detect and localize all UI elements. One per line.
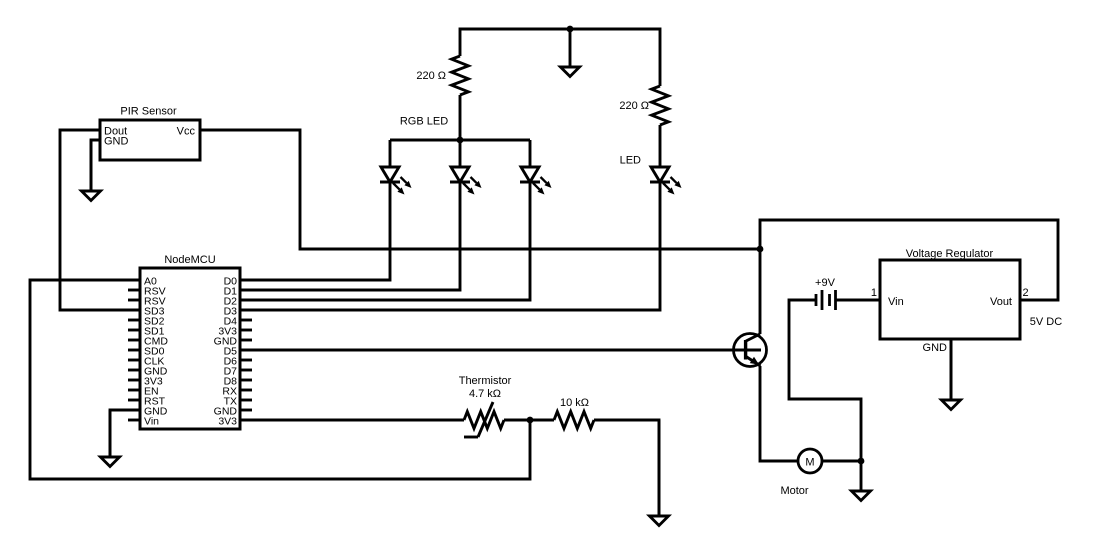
label Thermistor [459, 375, 512, 387]
wire A0 to divider junction [30, 280, 530, 479]
wire NodeMCU GND to ground [110, 410, 140, 457]
wire R2 to LED4 [659, 125, 662, 167]
svg-text:Motor: Motor [780, 485, 808, 497]
svg-text:M: M [805, 456, 814, 468]
wire top rail [460, 29, 660, 86]
wire regulator GND [950, 339, 953, 400]
svg-text:Voltage Regulator: Voltage Regulator [906, 248, 994, 260]
node top ground junction [567, 26, 574, 33]
wire collector rail [760, 220, 1058, 334]
wire Dout to SD3 [60, 130, 140, 310]
svg-text:Vin: Vin [888, 296, 904, 308]
PIR sensor module [100, 105, 200, 160]
svg-text:1: 1 [871, 287, 877, 299]
wire resistor R1 to bus [459, 95, 462, 140]
wire motor to junction [822, 460, 861, 463]
svg-text:LED: LED [620, 154, 641, 166]
transistor Q1 [734, 334, 767, 367]
node divider junction [527, 417, 534, 424]
pin 1 label [871, 287, 877, 299]
wire D0 to LED1 [240, 182, 390, 280]
motor M1 [798, 449, 822, 473]
wire LED1 anode [389, 140, 392, 167]
svg-text:GND: GND [923, 342, 948, 354]
svg-text:Vcc: Vcc [177, 125, 196, 137]
svg-text:Vout: Vout [990, 296, 1012, 308]
ground [101, 410, 120, 467]
resistor R3 [554, 412, 594, 429]
node 5V rail junction [757, 246, 764, 253]
wire D3 to LED4 [240, 182, 660, 310]
wire battery plus to Vin [836, 299, 880, 302]
ground [650, 420, 669, 526]
value label 10 kohm R3 [560, 397, 589, 409]
wire PIR GND to ground [91, 140, 100, 191]
LED D4 [650, 167, 682, 195]
wire battery minus loop [789, 300, 861, 461]
thermistor RT1 [464, 402, 504, 437]
wire 3V3 to thermistor [240, 419, 464, 422]
svg-text:PIR Sensor: PIR Sensor [120, 105, 177, 117]
ground [561, 29, 580, 77]
svg-text:Thermistor: Thermistor [459, 375, 512, 387]
voltage regulator U2 [880, 248, 1020, 354]
ground [942, 339, 961, 410]
svg-text:RGB LED: RGB LED [400, 115, 448, 127]
svg-text:5V DC: 5V DC [1030, 316, 1062, 328]
LED D3 blue [520, 167, 552, 195]
NodeMCU U1 [128, 254, 252, 429]
value label 220 ohm R1 [416, 70, 446, 82]
LED D2 green [450, 167, 482, 195]
wire 10k to ground [594, 420, 659, 516]
svg-text:NodeMCU: NodeMCU [164, 254, 215, 266]
resistor R1 [452, 56, 469, 95]
resistor R2 [652, 86, 669, 125]
value label 220 ohm R2 [619, 100, 649, 112]
pin 2 label [1023, 287, 1029, 299]
ground [82, 140, 101, 201]
svg-text:GND: GND [104, 135, 129, 147]
ground [852, 461, 871, 501]
net label 5V DC [1030, 316, 1062, 328]
svg-text:Vin: Vin [144, 415, 159, 427]
svg-text:+9V: +9V [815, 277, 836, 289]
svg-text:220 Ω: 220 Ω [416, 70, 446, 82]
label LED [620, 154, 641, 166]
wire D2 to LED3 [240, 182, 530, 300]
node motor junction [858, 458, 865, 465]
label Motor [780, 485, 808, 497]
node RGB bus junction [457, 137, 464, 144]
svg-text:3V3: 3V3 [218, 415, 237, 427]
value label 4.7 kohm RT1 [469, 388, 501, 400]
wire thermistor to 10k [504, 419, 554, 422]
wire LED2 anode [459, 140, 462, 167]
wire D5 to transistor base [240, 349, 745, 352]
wire RGB LED bus [390, 139, 530, 142]
wire D1 to LED2 [240, 182, 460, 290]
wire Vcc rail to 5V junction [200, 130, 760, 249]
svg-text:2: 2 [1023, 287, 1029, 299]
value label +9V [815, 277, 836, 289]
svg-text:10 kΩ: 10 kΩ [560, 397, 589, 409]
svg-text:220 Ω: 220 Ω [619, 100, 649, 112]
battery B1 [816, 290, 836, 310]
label RGB LED [400, 115, 448, 127]
wire emitter to motor [760, 366, 798, 461]
LED D1 red [380, 167, 412, 195]
wire LED3 anode [529, 140, 532, 167]
svg-text:4.7 kΩ: 4.7 kΩ [469, 388, 501, 400]
